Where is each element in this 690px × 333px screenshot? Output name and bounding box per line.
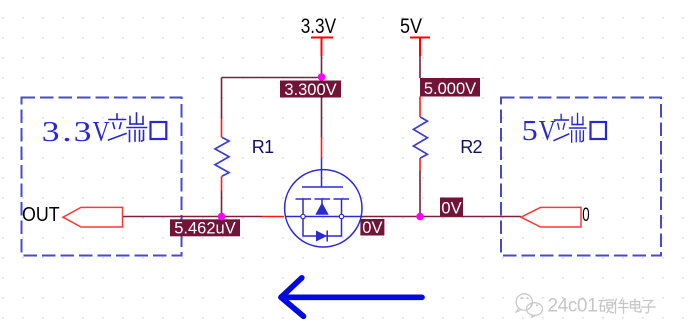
- svg-text:R1: R1: [252, 137, 274, 157]
- svg-text:R2: R2: [460, 137, 482, 157]
- svg-text:V: V: [93, 116, 110, 148]
- svg-text:0: 0: [582, 203, 589, 225]
- svg-text:5.462uV: 5.462uV: [174, 220, 235, 238]
- svg-text:5V: 5V: [400, 15, 422, 39]
- svg-text:0V: 0V: [441, 200, 461, 218]
- svg-text:0V: 0V: [362, 219, 382, 237]
- svg-text:OUT: OUT: [22, 204, 60, 226]
- svg-text:5: 5: [522, 115, 538, 147]
- svg-text:24c01: 24c01: [548, 296, 598, 317]
- svg-text:.: .: [62, 116, 72, 147]
- svg-text:5.000V: 5.000V: [424, 80, 476, 98]
- svg-text:3: 3: [42, 115, 60, 147]
- svg-text:3: 3: [74, 115, 92, 147]
- svg-text:3.300V: 3.300V: [284, 81, 336, 99]
- svg-text:V: V: [539, 115, 556, 147]
- svg-text:3.3V: 3.3V: [301, 16, 337, 39]
